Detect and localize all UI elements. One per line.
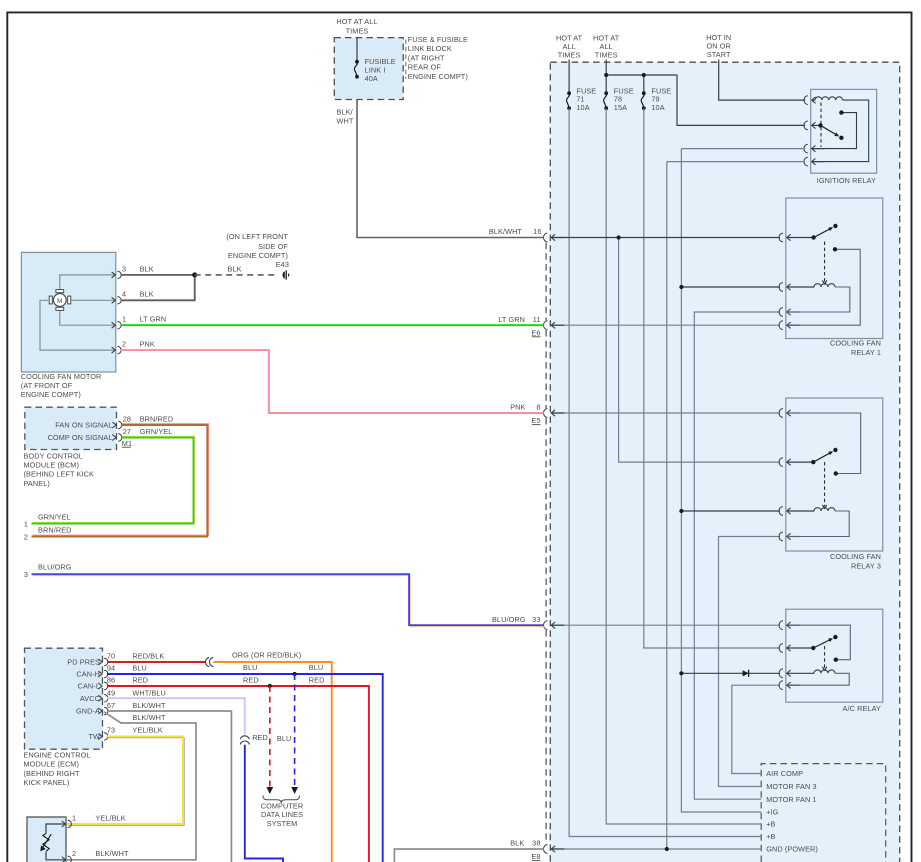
wire BLK/WHT fusible link output xyxy=(357,100,544,238)
svg-text:CAN-H: CAN-H xyxy=(76,670,100,679)
svg-text:+B: +B xyxy=(766,820,775,829)
svg-text:E5: E5 xyxy=(531,416,540,425)
svg-text:PANEL): PANEL) xyxy=(24,479,50,488)
entry connector BLU/ORG 33 xyxy=(544,621,565,630)
svg-text:SYSTEM: SYSTEM xyxy=(267,819,298,828)
svg-text:COMPUTER: COMPUTER xyxy=(261,802,304,811)
pin label AIR COMP xyxy=(766,769,803,778)
svg-text:(BEHIND RIGHT: (BEHIND RIGHT xyxy=(24,769,80,778)
relay1 NO contact to pin4 xyxy=(787,249,860,325)
relay1 actuator dashed line xyxy=(822,242,826,285)
svg-text:MOTOR FAN 1: MOTOR FAN 1 xyxy=(766,795,816,804)
wire WHT/BLU AVCC xyxy=(107,698,245,734)
svg-text:2: 2 xyxy=(24,533,28,542)
svg-text:70: 70 xyxy=(107,651,115,660)
label BCM pin28 xyxy=(123,414,174,423)
A/C relay box xyxy=(786,609,883,702)
svg-text:ENGINE COMPT): ENGINE COMPT) xyxy=(228,251,288,260)
wire BLU/ORG row to A/C relay pin1 xyxy=(552,624,781,626)
svg-text:2: 2 xyxy=(72,849,76,858)
svg-text:BLU: BLU xyxy=(243,663,258,672)
label BLK 38 xyxy=(510,839,540,848)
wire fuse 71 feed xyxy=(568,60,570,94)
label BCM pin27 xyxy=(123,427,173,436)
bus A/C relay pin4 (to AIR COMP) xyxy=(732,685,780,773)
svg-text:MODULE (ECM): MODULE (ECM) xyxy=(24,760,80,769)
computer data lines label xyxy=(261,802,304,828)
svg-text:REAR OF: REAR OF xyxy=(408,63,442,72)
connector chain dashed line segment 3 xyxy=(545,418,547,620)
A/C relay coil loop to pin4 xyxy=(787,673,849,685)
svg-text:KICK PANEL): KICK PANEL) xyxy=(24,778,70,787)
junction +IG at A/C coil xyxy=(679,671,683,675)
bus BLK/WHT branch (to cooling fan relay 3 pin2) xyxy=(619,238,780,463)
svg-text:11: 11 xyxy=(533,315,541,324)
label ECM pin94 xyxy=(107,663,147,672)
svg-text:RED: RED xyxy=(132,675,148,684)
svg-text:M1: M1 xyxy=(122,439,132,448)
svg-text:1: 1 xyxy=(122,315,126,324)
wire RED CAN-L xyxy=(107,686,369,862)
svg-text:YEL/BLK: YEL/BLK xyxy=(95,813,125,822)
relay1 pin4 connector xyxy=(779,321,800,330)
wire coil feed to relay3 pin3 xyxy=(681,510,780,512)
motor wire pin3 xyxy=(60,275,115,289)
label wire 2 BRN/RED xyxy=(24,526,72,542)
wire HOT IN ON OR START to ignition relay pin1 xyxy=(719,60,806,101)
svg-text:LINK BLOCK: LINK BLOCK xyxy=(408,44,452,53)
label HOT AT ALL TIMES (fusible link) xyxy=(336,17,377,36)
air comp / motor fan connector box xyxy=(761,764,886,862)
label HOT IN ON OR START xyxy=(706,33,731,59)
relay3 coil xyxy=(814,508,835,511)
svg-text:DATA LINES: DATA LINES xyxy=(261,810,303,819)
svg-text:28: 28 xyxy=(123,414,131,423)
A/C relay label xyxy=(843,704,882,713)
svg-text:START: START xyxy=(707,50,731,59)
svg-text:BLU: BLU xyxy=(309,663,324,672)
wire BLU CAN-H xyxy=(107,674,383,862)
label RED (splice) xyxy=(252,733,268,742)
svg-text:FUSE & FUSIBLE: FUSE & FUSIBLE xyxy=(408,35,468,44)
svg-text:94: 94 xyxy=(107,663,115,672)
svg-text:67: 67 xyxy=(107,701,115,710)
ECM pin connector y=736.4 xyxy=(98,733,108,740)
svg-text:RELAY 1: RELAY 1 xyxy=(851,348,881,357)
svg-text:BLK/WHT: BLK/WHT xyxy=(95,849,129,858)
wire GRN/YEL xyxy=(32,436,195,523)
wire RED/BLK 70 xyxy=(107,661,206,663)
wire fusible link feed xyxy=(356,38,358,62)
wire BRN/RED xyxy=(32,424,209,537)
label RED right xyxy=(309,675,325,684)
motor wire pin4 xyxy=(71,299,114,301)
bus cooling fan relay3 pin4 (to MOTOR FAN 3) xyxy=(719,537,781,787)
svg-text:ORG (OR RED/BLK): ORG (OR RED/BLK) xyxy=(232,650,301,659)
relay3 pin1 connector xyxy=(779,409,800,418)
wire PNK row to relay3 pin1 xyxy=(552,412,781,414)
wire ORG xyxy=(214,662,332,862)
svg-text:WHT/BLU: WHT/BLU xyxy=(132,688,166,697)
svg-text:PNK: PNK xyxy=(140,340,155,349)
relay3 pin1 to NO contact xyxy=(787,413,861,474)
svg-text:BLK/WHT: BLK/WHT xyxy=(132,713,166,722)
svg-text:73: 73 xyxy=(107,725,115,734)
ground E43 symbol xyxy=(283,270,289,279)
label M1 xyxy=(122,439,132,448)
svg-text:3: 3 xyxy=(24,570,28,579)
ignition relay pin3 connector xyxy=(804,144,825,153)
wire BLK/WHT 16 row to relay1 pin1 xyxy=(552,237,781,239)
svg-text:ENGINE COMPT): ENGINE COMPT) xyxy=(21,390,81,399)
motor M1 symbol xyxy=(49,290,71,311)
bus ignition relay pin4 (to GND row) xyxy=(666,162,668,849)
svg-text:BLK/: BLK/ xyxy=(337,108,354,117)
svg-text:HOT AT ALL: HOT AT ALL xyxy=(336,17,377,26)
svg-text:+B: +B xyxy=(766,832,775,841)
svg-text:RED: RED xyxy=(309,675,325,684)
cooling fan relay 1 label xyxy=(830,338,881,357)
svg-text:(AT RIGHT: (AT RIGHT xyxy=(408,53,445,62)
svg-text:GND-A: GND-A xyxy=(76,707,100,716)
label sensor pin2 xyxy=(72,849,129,858)
svg-text:ENGINE COMPT): ENGINE COMPT) xyxy=(408,72,468,81)
label wire 1 GRN/YEL xyxy=(24,513,71,529)
svg-text:49: 49 xyxy=(107,688,115,697)
label ECM pin73 xyxy=(107,725,163,734)
dashed BLU data line xyxy=(294,674,296,787)
label E8 xyxy=(531,852,540,861)
pin label +IG xyxy=(766,808,778,817)
svg-text:BLK/WHT: BLK/WHT xyxy=(132,701,166,710)
svg-text:16: 16 xyxy=(533,227,541,236)
svg-text:2: 2 xyxy=(122,340,126,349)
connector chain dashed line segment 1 xyxy=(545,243,547,321)
svg-text:86: 86 xyxy=(107,675,115,684)
svg-text:BRN/RED: BRN/RED xyxy=(38,526,72,535)
thermistor R1 symbol xyxy=(40,824,65,860)
ignition relay pin4 connector xyxy=(804,157,825,166)
entry connector PNK 8 xyxy=(544,409,565,418)
svg-text:8: 8 xyxy=(536,403,540,412)
junction fuse 79 feed xyxy=(642,73,646,77)
label E5 xyxy=(531,416,540,425)
svg-text:SIDE OF: SIDE OF xyxy=(258,242,288,251)
svg-text:A/C RELAY: A/C RELAY xyxy=(843,704,882,713)
entry connector BLK/WHT 16 xyxy=(544,233,565,242)
label wire 3 BLU/ORG xyxy=(24,562,72,579)
svg-text:+IG: +IG xyxy=(766,808,778,817)
ignition relay label xyxy=(817,176,876,185)
ECM pin connector y=711 xyxy=(98,707,108,714)
label RED (data line) xyxy=(0,0,1,1)
junction RED xyxy=(268,684,272,688)
wire coil feed to A/C relay pin3 (through diode) xyxy=(681,672,780,674)
motor pin4 connector xyxy=(112,297,122,304)
label RED left xyxy=(243,675,259,684)
wire BLK motor pin3 xyxy=(121,274,195,276)
A/C relay switch xyxy=(811,635,838,650)
label ECM TW xyxy=(88,732,100,741)
label BLU/ORG 33 xyxy=(492,615,541,624)
svg-text:15A: 15A xyxy=(614,103,627,112)
motor wire pin2 xyxy=(40,300,115,350)
bus fuse 79 output (to A/C relay pin2) xyxy=(644,108,780,648)
motor wire pin1 xyxy=(60,311,115,325)
svg-text:E8: E8 xyxy=(531,852,540,861)
label ECM GND-A xyxy=(76,707,100,716)
junction BLK xyxy=(192,272,197,277)
A/C relay NO contact dot xyxy=(834,658,838,662)
svg-text:IGNITION RELAY: IGNITION RELAY xyxy=(817,176,876,185)
svg-text:BLK: BLK xyxy=(228,264,242,273)
relay1 pin2 connector xyxy=(779,283,814,292)
label ECM PD PRES xyxy=(67,658,100,667)
svg-text:3: 3 xyxy=(122,264,126,273)
connector chain dashed line segment 4 xyxy=(545,630,547,844)
relay3 NO contact dot xyxy=(834,471,838,475)
svg-text:M: M xyxy=(57,298,62,305)
fuse/relay box (power distribution) outline xyxy=(550,62,899,862)
wire PNK 8 xyxy=(121,350,544,413)
fuse 71 label xyxy=(576,86,596,112)
label motor pin2 xyxy=(122,340,155,349)
motor pin2 connector xyxy=(112,346,122,353)
relay1 pin3 connector xyxy=(779,308,800,317)
svg-text:1: 1 xyxy=(72,813,76,822)
label ECM BLK/WHT 2nd xyxy=(132,713,166,722)
svg-text:YEL/BLK: YEL/BLK xyxy=(132,725,162,734)
ignition relay pin1 connector xyxy=(804,96,816,105)
cooling fan relay 3 label xyxy=(830,552,881,571)
svg-text:10A: 10A xyxy=(576,103,589,112)
ignition relay NC contact dot xyxy=(839,110,843,114)
wire BLU below splice xyxy=(245,745,283,862)
pin label MOTOR FAN 1 xyxy=(766,795,816,804)
svg-text:BLK: BLK xyxy=(510,839,524,848)
relay1 coil loop to pin3 xyxy=(787,287,850,312)
svg-text:COOLING FAN MOTOR: COOLING FAN MOTOR xyxy=(21,372,102,381)
junction BLK/WHT branch xyxy=(617,235,621,239)
inline connector (( on pin70 wire xyxy=(205,657,213,666)
wire GND row xyxy=(552,848,762,850)
svg-text:BLU: BLU xyxy=(277,734,292,743)
ignition relay NC contact to pin3 xyxy=(812,113,857,149)
ignition relay actuator dashed line xyxy=(820,103,822,148)
A/C relay pin4 connector xyxy=(779,681,800,690)
svg-text:E43: E43 xyxy=(276,260,289,269)
svg-text:33: 33 xyxy=(532,615,540,624)
svg-text:BLK/WHT: BLK/WHT xyxy=(489,227,523,236)
wire BLU/ORG 33 xyxy=(32,574,546,626)
entry connector BLK 38 xyxy=(544,845,565,854)
svg-text:38: 38 xyxy=(532,839,540,848)
ECM box xyxy=(25,648,103,749)
relay3 pin4 connector xyxy=(779,532,800,541)
fusible link I symbol xyxy=(354,60,359,79)
dashed RED data line xyxy=(269,686,271,787)
svg-text:COMP ON SIGNAL: COMP ON SIGNAL xyxy=(48,433,113,442)
pin label GND (POWER) xyxy=(766,845,818,854)
ignition relay U1 box xyxy=(811,89,877,173)
A/C relay pin3 connector xyxy=(779,669,814,678)
relay1 pin1 connector xyxy=(779,233,814,242)
junction ignition relay pin4 at GND row xyxy=(665,847,669,851)
svg-text:RED: RED xyxy=(252,733,268,742)
fuse block callout tick xyxy=(405,40,407,80)
svg-text:TIMES: TIMES xyxy=(595,51,618,60)
wire BLK 38 xyxy=(394,849,543,862)
svg-text:E6: E6 xyxy=(531,328,540,337)
label FAN ON SIGNAL xyxy=(55,421,112,430)
wire ignition relay pin3 row xyxy=(681,148,805,150)
junction +IG at relay1 coil xyxy=(679,285,683,289)
junction BLU xyxy=(293,672,297,676)
svg-text:LT GRN: LT GRN xyxy=(140,315,167,324)
svg-text:BODY CONTROL: BODY CONTROL xyxy=(24,451,83,460)
cooling fan relay 1 box xyxy=(786,198,883,339)
label BLU right xyxy=(309,663,324,672)
wire LT GRN row to relay1 pin4 xyxy=(552,324,781,326)
svg-text:COOLING FAN: COOLING FAN xyxy=(830,338,881,347)
svg-text:(ON LEFT FRONT: (ON LEFT FRONT xyxy=(226,232,288,241)
label motor pin1 xyxy=(122,315,166,324)
label ECM pin49 xyxy=(107,688,166,697)
label HOT AT ALL TIMES (fuse 71) xyxy=(556,33,583,59)
A/C relay coil xyxy=(814,670,835,673)
cooling fan relay 3 box xyxy=(786,398,883,551)
label BLK/WHT 16 xyxy=(489,227,542,236)
label ECM CAN-L xyxy=(78,682,100,691)
entry connector LT GRN 11 xyxy=(544,321,565,330)
relay1 NO contact dot xyxy=(833,247,837,251)
svg-text:BLK: BLK xyxy=(140,290,154,299)
brace under data line arrows xyxy=(263,796,300,804)
label motor pin3 xyxy=(122,264,154,273)
svg-text:1: 1 xyxy=(24,520,28,529)
label ECM pin70 xyxy=(107,651,164,660)
label E6 xyxy=(531,328,540,337)
svg-text:RED/BLK: RED/BLK xyxy=(132,651,164,660)
svg-text:WHT: WHT xyxy=(337,117,354,126)
wire ignition relay pin4 row xyxy=(667,161,805,163)
svg-text:10A: 10A xyxy=(651,103,664,112)
label ORG (OR RED/BLK) xyxy=(232,650,301,659)
junction fuse 78 feed xyxy=(604,73,608,77)
wire BLK/WHT 67 xyxy=(107,711,231,862)
label LT GRN 11 xyxy=(498,315,540,324)
svg-text:TIMES: TIMES xyxy=(346,27,369,36)
svg-text:PD PRES: PD PRES xyxy=(67,658,100,667)
relay1 coil xyxy=(814,284,835,287)
svg-text:ENGINE CONTROL: ENGINE CONTROL xyxy=(24,751,91,760)
label COMP ON SIGNAL xyxy=(48,433,113,442)
sensor box xyxy=(27,817,66,862)
svg-text:RELAY 3: RELAY 3 xyxy=(851,562,881,571)
wire fuse78/79 to ignition relay pin2 xyxy=(606,75,805,125)
svg-text:4: 4 xyxy=(122,290,126,299)
label BLU (data line) xyxy=(277,734,292,743)
svg-text:BRN/RED: BRN/RED xyxy=(140,414,174,423)
svg-text:27: 27 xyxy=(123,427,131,436)
svg-text:AIR COMP: AIR COMP xyxy=(766,769,803,778)
svg-text:GRN/YEL: GRN/YEL xyxy=(140,427,173,436)
ignition relay coil loop to pin4 xyxy=(812,100,869,162)
pin label +B xyxy=(766,832,775,841)
connector chain dashed line segment 2 xyxy=(545,330,547,408)
label motor pin4 xyxy=(122,290,154,299)
relay3 pin3 connector xyxy=(779,507,814,516)
fuse 79 label xyxy=(651,86,671,112)
bus fuse 78 output (to +B) xyxy=(606,108,761,824)
fuse block box xyxy=(334,38,403,100)
BCM label xyxy=(24,451,95,488)
dashed BLU arrowhead xyxy=(291,787,298,794)
ground location label xyxy=(226,232,289,269)
BCM box xyxy=(25,407,117,449)
relay3 pin2 connector xyxy=(779,458,814,467)
svg-text:TIMES: TIMES xyxy=(558,51,581,60)
relay3 coil loop to pin4 xyxy=(787,511,849,537)
relay3 switch xyxy=(811,448,838,465)
motor pin3 connector xyxy=(112,271,122,278)
label ECM pin86 xyxy=(107,675,148,684)
sensor pin2 connector xyxy=(62,856,72,862)
svg-text:MOTOR FAN 3: MOTOR FAN 3 xyxy=(766,782,816,791)
label PNK 8 xyxy=(510,403,540,412)
diode D1 xyxy=(743,670,749,677)
svg-text:FAN ON SIGNAL: FAN ON SIGNAL xyxy=(55,421,112,430)
A/C relay pin1 to NO contact xyxy=(787,625,850,660)
wire LT GRN 11 xyxy=(121,324,544,326)
svg-text:BLU/ORG: BLU/ORG xyxy=(38,562,72,571)
fusible link label xyxy=(365,57,396,83)
svg-text:AVCC: AVCC xyxy=(80,694,100,703)
wire coil feed to relay1 pin2 xyxy=(681,286,780,288)
A/C relay pin2 connector xyxy=(779,644,814,653)
ECM label xyxy=(24,751,91,788)
label BLK (ground wire) xyxy=(228,264,242,273)
BCM pin28 connector xyxy=(112,421,122,428)
svg-text:RED: RED xyxy=(243,675,259,684)
svg-text:BLU/ORG: BLU/ORG xyxy=(492,615,526,624)
ignition relay coil xyxy=(815,97,843,100)
ECM pin connector y=698.2 xyxy=(98,695,108,702)
label BLK/WHT (fusible link output) xyxy=(337,108,354,126)
svg-text:40A: 40A xyxy=(365,74,378,83)
fuse block callout label xyxy=(408,35,468,81)
ignition relay switch xyxy=(818,123,843,140)
relay1 switch xyxy=(811,224,837,240)
wire BLK motor pin4 xyxy=(121,275,195,300)
ECM pin connector y=662 xyxy=(98,658,108,665)
bus ignition relay pin3 +IG xyxy=(681,149,761,812)
svg-text:MODULE (BCM): MODULE (BCM) xyxy=(24,461,80,470)
svg-text:BLK: BLK xyxy=(140,264,154,273)
svg-text:BLU: BLU xyxy=(132,663,147,672)
dashed RED arrowhead xyxy=(266,787,273,794)
fuse 79 symbol xyxy=(641,91,646,110)
wire fuse 78 feed xyxy=(605,60,607,94)
splice connector on AVCC wire xyxy=(240,736,249,745)
svg-text:CAN-L: CAN-L xyxy=(78,682,100,691)
svg-text:COOLING FAN: COOLING FAN xyxy=(830,552,881,561)
pin label MOTOR FAN 3 xyxy=(766,782,816,791)
svg-text:TW: TW xyxy=(88,732,100,741)
label HOT AT ALL TIMES (fuse 78) xyxy=(593,33,620,59)
fuse 78 symbol xyxy=(604,91,609,110)
svg-text:(AT FRONT OF: (AT FRONT OF xyxy=(21,381,73,390)
